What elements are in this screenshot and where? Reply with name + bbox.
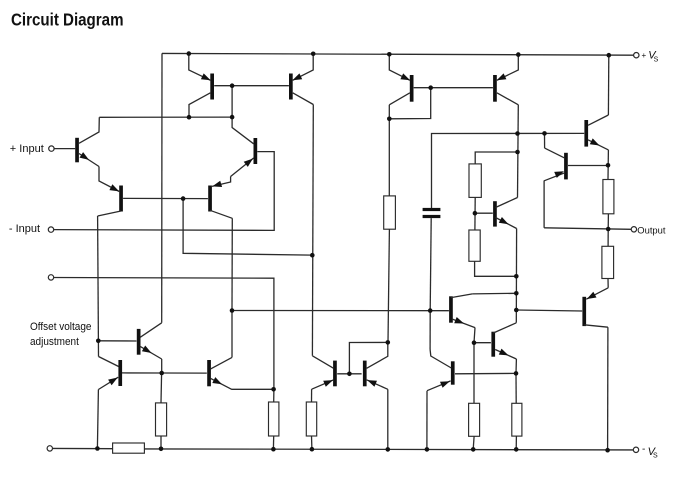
- transistor Q16 (NPN, vbe multiplier): [493, 201, 497, 226]
- resistor R8: [269, 402, 279, 436]
- transistor Q17 (PNP): [451, 361, 455, 384]
- wire Q13 collector down to Q16 collector: [517, 105, 520, 198]
- wire node B to Q17 base: [455, 372, 516, 374]
- node junction: [514, 291, 519, 296]
- wire Q19 base from Q3 collector line: [98, 340, 136, 342]
- wire -Vs supply rail left segment: [53, 447, 113, 449]
- resistor R4: [384, 196, 396, 229]
- wire base bias node down to Q9 collector: [183, 199, 312, 256]
- resistor R7: [306, 402, 316, 436]
- wire offset null A to Q7 emitter node and R8: [54, 278, 274, 403]
- wire Q14 collector to +Vs rail: [607, 55, 609, 115]
- svg-text:S: S: [654, 56, 659, 63]
- wire node A to Q15 base: [232, 310, 449, 312]
- svg-text:+ Input: + Input: [10, 143, 44, 155]
- resistor R11 (horizontal, bottom-left): [113, 443, 145, 453]
- wire output node to Q20 base: [516, 310, 582, 311]
- wire C1 top to Q13 collector bus and Q14 base: [432, 133, 585, 208]
- wire Q3 collector down to Q19 base: [97, 216, 100, 357]
- transistor Q14 (output NPN): [584, 120, 588, 147]
- wire Q8-Q9 base tie: [214, 85, 289, 87]
- terminal -Input: [48, 227, 53, 232]
- transistor Q13 (PNP mirror, top right): [493, 75, 497, 102]
- terminal Output: [631, 227, 636, 232]
- transistor Q15 (NPN driver): [449, 296, 453, 322]
- node junction: [425, 447, 430, 452]
- wire Q14b emitter to rail: [387, 389, 389, 449]
- wire R6 to rail: [160, 436, 162, 449]
- wire Q22 collector vertical: [544, 133, 546, 148]
- resistor R9: [469, 403, 480, 436]
- transistor Q20 (PNP output): [582, 297, 586, 326]
- resistor R3: [469, 164, 481, 198]
- node junction: [95, 446, 100, 451]
- wire Q1 collector bus: [99, 116, 232, 118]
- node junction: [386, 340, 391, 345]
- wire R3 to R5: [474, 197, 476, 230]
- terminal offset null A: [48, 275, 53, 280]
- node junction: [159, 371, 164, 376]
- svg-text:Offset voltage: Offset voltage: [30, 320, 92, 333]
- node junction: [187, 51, 192, 56]
- node junction: [514, 371, 519, 376]
- wire +Vs rail corner down to Q19 collector: [161, 53, 163, 322]
- wire Q4 collector down to node A: [231, 218, 233, 310]
- svg-text:+: +: [642, 51, 647, 60]
- wire Q16 emitter to output node vertical: [515, 229, 517, 323]
- transistor Q14b (PNP mirror right, diode): [363, 361, 367, 387]
- transistor Q19 (NPN, offset adj): [137, 329, 141, 355]
- node junction: [516, 52, 521, 57]
- wire tap to Q16 base: [475, 212, 493, 214]
- wire Q14a-Q14b base tie: [337, 373, 361, 375]
- wire Q22 base from Q14 emitter node: [568, 165, 608, 167]
- wire Q17 emitter to rail: [426, 391, 428, 450]
- wire Q6 emitter to rail: [97, 390, 98, 449]
- node junction: [607, 53, 612, 58]
- transistor Q12 (PNP mirror master, top middle): [410, 75, 414, 102]
- wire Q12 diode connection: [389, 88, 430, 119]
- wire Q22 emitter down to output line: [543, 181, 545, 228]
- node junction: [514, 308, 519, 313]
- wire +Vs supply rail: [162, 53, 634, 55]
- node junction: [230, 83, 235, 88]
- node junction: [271, 387, 276, 392]
- svg-text:adjustment: adjustment: [30, 336, 79, 349]
- resistor R6: [156, 403, 167, 436]
- wire Q14a emitter to R7: [311, 389, 313, 402]
- capacitor C1: [423, 208, 441, 211]
- svg-text:S: S: [653, 453, 658, 460]
- wire Q20 collector to rail: [607, 327, 609, 450]
- wire Q9 collector vertical: [311, 105, 314, 356]
- transistor Q2 (-input, PNP): [254, 138, 258, 164]
- wire node to Q18 base: [474, 342, 491, 344]
- wire -Input to Q2 base: [54, 152, 275, 231]
- node junction: [159, 447, 164, 452]
- node junction: [387, 52, 392, 57]
- svg-text:-: -: [642, 444, 645, 455]
- node junction: [428, 308, 433, 313]
- node junction: [310, 253, 315, 258]
- node junction: [386, 447, 391, 452]
- node junction: [387, 117, 392, 122]
- node junction: [187, 115, 192, 120]
- wire Q19 emitter down to node: [161, 359, 163, 373]
- node junction: [605, 448, 610, 453]
- wire node B to R10: [515, 373, 517, 403]
- transistor Q22 (PNP, output driver upper): [564, 153, 568, 180]
- wire output line down to R2: [607, 229, 609, 246]
- resistor R10: [512, 403, 522, 436]
- node junction: [515, 150, 520, 155]
- node junction: [311, 52, 316, 57]
- wire R9 to rail: [472, 436, 475, 449]
- wire output line: [544, 228, 631, 230]
- node junction: [515, 131, 520, 136]
- svg-text:Output: Output: [637, 225, 666, 236]
- node junction: [310, 447, 315, 452]
- node junction: [230, 115, 235, 120]
- terminal +Vs: [634, 53, 639, 58]
- node junction: [606, 163, 611, 168]
- node junction: [181, 196, 186, 201]
- transistor Q9 (PNP current mirror): [289, 74, 293, 100]
- terminal offset null B: [47, 446, 52, 451]
- node junction: [271, 447, 276, 452]
- wire Q12 collector down to R4: [388, 105, 390, 196]
- wire node A to Q17 collector: [429, 311, 431, 350]
- resistor R5: [469, 230, 480, 261]
- wire node to Q6 base: [122, 372, 162, 374]
- svg-text:- Input: - Input: [9, 223, 40, 235]
- node junction: [514, 274, 519, 279]
- wire R7 to rail: [311, 436, 313, 449]
- svg-text:Circuit Diagram: Circuit Diagram: [11, 9, 124, 30]
- wire R8 to rail: [272, 436, 274, 449]
- transistor Q1 (+input, NPN): [75, 138, 79, 163]
- node junction: [428, 85, 433, 90]
- node junction: [514, 447, 519, 452]
- wire Q18 emitter to node B: [515, 359, 517, 373]
- transistor Q4 (PNP cascode right): [208, 186, 212, 212]
- wire R10 to rail: [515, 436, 517, 449]
- transistor Q18 (NPN): [491, 332, 495, 357]
- node junction: [347, 372, 352, 377]
- transistor Q7 (NPN offset): [207, 360, 211, 386]
- wire Q19 emitter node to Q7 base: [162, 372, 207, 374]
- terminal -Vs: [633, 447, 638, 452]
- wire Q15 emitter to Q18 base node and R9: [474, 328, 475, 404]
- wire -Vs supply rail right segment: [144, 449, 633, 450]
- transistor Q14a (PNP mirror left): [333, 361, 337, 387]
- transistor Q3 (PNP cascode left): [119, 186, 123, 212]
- wire node down to R6: [160, 373, 163, 403]
- wire Q7 collector to node A: [231, 311, 233, 358]
- wire R4 to Q14b/Q17 mirror node: [388, 229, 389, 342]
- wire R1 to output line: [607, 214, 609, 229]
- wire R5 to output node: [475, 261, 517, 276]
- node junction: [230, 308, 235, 313]
- wire Q7 emitter to offset node: [231, 388, 273, 390]
- node junction: [471, 447, 476, 452]
- node junction: [542, 131, 547, 136]
- resistor R2: [602, 246, 614, 278]
- wire R2 to Q20 emitter: [607, 279, 609, 288]
- wire +Input to Q1 base: [54, 148, 75, 150]
- node junction: [472, 340, 477, 345]
- node junction: [473, 211, 478, 216]
- terminal +Input: [49, 146, 54, 151]
- transistor Q6 (PNP, offset adj): [118, 360, 122, 386]
- wire Q14 emitter down to R1: [607, 150, 609, 180]
- resistor R1: [603, 180, 614, 214]
- transistor Q8 (PNP current mirror master): [210, 74, 214, 100]
- wire Q15 collector to output node: [472, 292, 516, 295]
- wire C1 bottom to node A: [430, 218, 431, 311]
- wire branch to R3: [475, 152, 517, 164]
- wire Q12-Q13 base tie: [414, 87, 493, 89]
- wire Q3 base to Q4 base: [123, 197, 208, 199]
- node junction: [606, 227, 611, 232]
- wire Q8 diode connection: [231, 86, 233, 117]
- node junction: [96, 339, 101, 344]
